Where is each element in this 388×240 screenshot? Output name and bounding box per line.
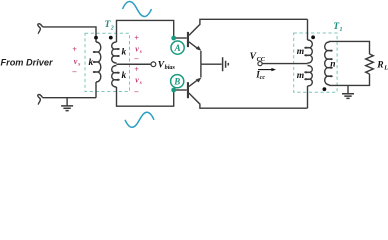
svg-text:s: s: [139, 80, 142, 86]
svg-text:–: –: [72, 67, 77, 76]
svg-text:V: V: [250, 52, 257, 62]
svg-text:v: v: [74, 57, 78, 66]
svg-text:s: s: [77, 61, 80, 67]
svg-text:cc: cc: [260, 74, 266, 81]
svg-text:k: k: [89, 58, 94, 68]
svg-text:From Driver: From Driver: [1, 58, 54, 68]
svg-text:+: +: [134, 33, 139, 42]
svg-text:A: A: [174, 43, 181, 53]
svg-text:L: L: [383, 65, 388, 72]
svg-text:CC: CC: [257, 56, 266, 63]
svg-text:k: k: [122, 47, 127, 57]
svg-text:m: m: [297, 71, 304, 81]
svg-text:B: B: [173, 76, 180, 86]
svg-text:m: m: [297, 47, 304, 57]
svg-text:+: +: [72, 45, 77, 54]
svg-text:n: n: [330, 60, 335, 70]
svg-text:–: –: [134, 87, 139, 96]
svg-text:1: 1: [340, 27, 343, 33]
svg-text:s: s: [139, 49, 142, 55]
svg-text:R: R: [376, 61, 383, 71]
svg-text:–: –: [134, 54, 139, 63]
svg-text:v: v: [135, 75, 139, 84]
svg-text:k: k: [122, 71, 127, 81]
svg-text:bias: bias: [165, 64, 176, 71]
svg-text:v: v: [135, 44, 139, 53]
svg-text:2: 2: [110, 26, 114, 32]
svg-text:+: +: [134, 65, 139, 74]
